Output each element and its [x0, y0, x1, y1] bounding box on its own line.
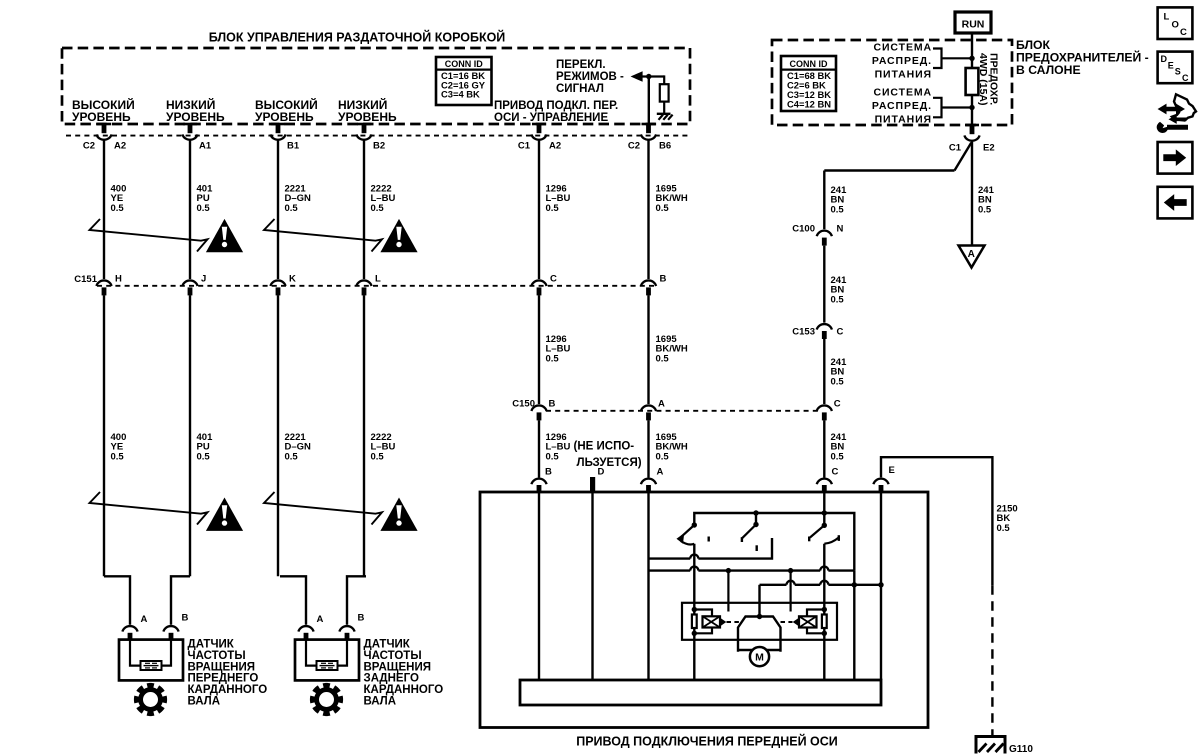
svg-text:C3=4 BK: C3=4 BK [441, 89, 480, 100]
right solenoid bracket [807, 610, 824, 634]
wire column x=364 C151 to sensor jog [363, 295, 365, 576]
sensor element (coil) (front shaft sensor) [141, 661, 162, 670]
bus line (pin A net) [649, 569, 691, 571]
svg-text:B1: B1 [287, 141, 300, 152]
svg-text:УРОВЕНЬ: УРОВЕНЬ [166, 110, 225, 124]
switch 1 pivot [692, 522, 697, 527]
svg-text:C1: C1 [949, 143, 962, 154]
svg-text:E: E [889, 465, 895, 476]
svg-text:УРОВЕНЬ: УРОВЕНЬ [338, 110, 397, 124]
warning triangle (pair 2221/2222 upper) [380, 219, 417, 252]
switch 1 throat contact [681, 541, 695, 545]
inline connector C151 pin H [96, 280, 111, 286]
svg-text:ВРАЩЕНИЯ: ВРАЩЕНИЯ [364, 661, 432, 673]
icon box LOC [1158, 7, 1193, 39]
svg-text:B: B [358, 613, 365, 624]
icon box arrow right [1158, 142, 1193, 174]
wire: motor drop [758, 585, 760, 617]
svg-text:ЗАДНЕГО: ЗАДНЕГО [364, 673, 419, 685]
svg-text:РАСПРЕД.: РАСПРЕД. [872, 100, 932, 112]
node: left solenoid top [692, 607, 697, 612]
sensor element (coil) (rear shaft sensor) [317, 661, 338, 670]
svg-text:CONN ID: CONN ID [790, 59, 829, 69]
svg-text:CONN ID: CONN ID [445, 59, 484, 69]
svg-text:0.5: 0.5 [831, 204, 845, 215]
wire column x=648.5 module to C151 [647, 140, 649, 279]
CONN ID table (fuse block) [781, 56, 836, 111]
svg-text:ЛЬЗУЕТСЯ): ЛЬЗУЕТСЯ) [577, 457, 642, 469]
inline connector C151 pin B [641, 280, 656, 286]
twisted-pair symbol (wires 2221/2222 upper) [264, 219, 382, 252]
svg-text:ПИТАНИЯ: ПИТАНИЯ [875, 114, 932, 126]
wire jog left ЗАДНЕГО (rear shaft sensor) [280, 576, 306, 625]
node: junction dot on B6 wire [646, 74, 651, 79]
inline connector C100 pin N [817, 231, 832, 237]
bracket (lower feed) [933, 98, 942, 118]
wire 241 BN: C100 to C153 [823, 246, 825, 323]
svg-text:0.5: 0.5 [197, 451, 211, 462]
svg-text:K: K [289, 274, 296, 285]
right solenoid valve (X-box) [799, 616, 817, 627]
wire: pin B to ground bar [538, 492, 540, 680]
svg-text:L: L [1164, 12, 1170, 23]
node: right solenoid top [822, 607, 827, 612]
ground bar (actuator base) [520, 680, 881, 705]
fuse block box (dashed) [772, 40, 1012, 125]
wire: through right solenoid [823, 610, 825, 634]
svg-text:L: L [375, 274, 381, 285]
motor supply line (horizontal) [760, 584, 787, 586]
svg-text:0.5: 0.5 [546, 203, 560, 214]
svg-text:0.5: 0.5 [111, 203, 125, 214]
switch rail (top) [694, 513, 854, 571]
right solenoid bar [822, 615, 827, 629]
node: motor line - frame right [852, 582, 857, 587]
wire 241 BN to A-triangle [971, 142, 973, 246]
switch 1 alt contact tick [708, 537, 710, 542]
svg-text:N: N [837, 224, 844, 235]
svg-text:G110: G110 [1009, 744, 1033, 755]
svg-text:0.5: 0.5 [285, 451, 299, 462]
switch 1 blade [682, 525, 695, 537]
svg-text:ДАТЧИК: ДАТЧИК [364, 639, 411, 651]
solenoid block box [682, 603, 837, 640]
node: bus-limit switch left [726, 568, 731, 573]
wire 2150 BK: up from pin E and across [881, 457, 992, 585]
sensor pin A connector (rear shaft sensor) [298, 626, 313, 632]
svg-text:A: A [968, 249, 975, 260]
svg-text:C100: C100 [792, 224, 815, 235]
svg-text:A2: A2 [549, 141, 561, 152]
wire column x=190 module to C151 [189, 140, 191, 279]
twisted-pair symbol (wires 400/401 upper) [90, 219, 208, 252]
svg-text:0.5: 0.5 [656, 353, 670, 364]
wire jog right ПЕРЕДНЕГО (front shaft sensor) [171, 576, 190, 625]
node: right solenoid bottom [822, 631, 827, 636]
sensor pin A connector (front shaft sensor) [122, 626, 137, 632]
wire: right solenoid to ground bar [823, 633, 825, 680]
wire: resistor to ground [663, 102, 665, 114]
svg-text:ПРИВОД ПОДКЛЮЧЕНИЯ ПЕРЕДНЕЙ ОС: ПРИВОД ПОДКЛЮЧЕНИЯ ПЕРЕДНЕЙ ОСИ [576, 734, 838, 749]
svg-text:СИСТЕМА: СИСТЕМА [874, 87, 933, 99]
gear (reluctor wheel) (rear shaft sensor) [310, 683, 343, 716]
warning triangle (pair 400/401 lower) [206, 498, 243, 531]
svg-text:ПЕРЕДНЕГО: ПЕРЕДНЕГО [188, 673, 259, 685]
resistor R (mode signal pull-up) [660, 84, 669, 101]
twisted-pair symbol (wires 400/401 lower) [90, 492, 208, 525]
node: feed junction lower [969, 105, 974, 110]
svg-text:ВАЛА: ВАЛА [364, 696, 397, 708]
wire column x=278 C151 to sensor jog [277, 295, 279, 576]
wire: left solenoid to ground bar [693, 633, 695, 680]
svg-text:ВРАЩЕНИЯ: ВРАЩЕНИЯ [188, 661, 256, 673]
svg-text:СИГНАЛ: СИГНАЛ [556, 83, 604, 95]
C151 connector dashed line [97, 285, 656, 287]
svg-text:A2: A2 [114, 141, 126, 152]
svg-text:В САЛОНЕ: В САЛОНЕ [1016, 63, 1081, 77]
wire column x=104 C151 to sensor jog [103, 295, 105, 576]
svg-text:C: C [1182, 73, 1189, 83]
wire: through left solenoid [693, 610, 695, 634]
svg-text:0.5: 0.5 [978, 204, 992, 215]
svg-text:ДАТЧИК: ДАТЧИК [188, 639, 235, 651]
dashed link right [781, 621, 793, 623]
sensor body box (front shaft sensor) [119, 640, 183, 681]
sensor body box (rear shaft sensor) [295, 640, 359, 681]
wire: frame right to ground bar [853, 571, 855, 680]
node: motor housing top [757, 614, 762, 619]
svg-text:УРОВЕНЬ: УРОВЕНЬ [72, 110, 131, 124]
svg-text:M: M [755, 651, 764, 663]
wire: switch3 contact down [823, 544, 825, 610]
wire 241 BN: to C100 [823, 171, 825, 230]
wire 2150 BK dashed segment [991, 585, 993, 736]
svg-text:C: C [550, 274, 557, 285]
svg-text:0.5: 0.5 [197, 203, 211, 214]
module connector dashed line [66, 135, 688, 137]
switch 2 contact tick [756, 545, 758, 551]
node: rail-pin C [822, 510, 827, 515]
svg-text:ЧАСТОТЫ: ЧАСТОТЫ [364, 650, 422, 662]
wire: fuse to pin E2 [971, 95, 973, 125]
ground G110 [975, 735, 1007, 738]
wire: pin A to ground bar [647, 492, 649, 680]
wire column x=364 module to C151 [363, 140, 365, 279]
wire: horizontal to 241 BN branch [824, 169, 954, 171]
svg-text:C: C [834, 399, 841, 410]
svg-text:A: A [141, 614, 148, 625]
svg-text:E: E [1168, 60, 1174, 70]
wire 241 BN: C150 to actuator box [823, 420, 825, 477]
wire column x=539 C151 to C150 [538, 295, 540, 404]
svg-text:0.5: 0.5 [371, 203, 385, 214]
svg-text:J: J [201, 274, 206, 285]
svg-text:ПРИВОД ПОДКЛ. ПЕР.: ПРИВОД ПОДКЛ. ПЕР. [494, 100, 618, 112]
switch 2 pivot [753, 522, 758, 527]
svg-text:C2: C2 [628, 141, 640, 152]
inline connector C151 pin K [270, 280, 285, 286]
switch 3 pivot [822, 523, 827, 528]
wire: pin D to ground bar [591, 492, 593, 680]
connector pin E at actuator [873, 479, 888, 485]
warning triangle (pair 400/401 upper) [206, 219, 243, 252]
switch 2 blade [742, 525, 756, 539]
svg-text:C153: C153 [792, 327, 815, 338]
svg-text:(НЕ ИСПО-: (НЕ ИСПО- [574, 441, 635, 453]
dashed link left [727, 621, 740, 623]
svg-text:ЧАСТОТЫ: ЧАСТОТЫ [188, 650, 246, 662]
wire column x=278 module to C151 [277, 140, 279, 279]
wire jog right ЗАДНЕГО (rear shaft sensor) [347, 576, 366, 625]
wire: pin C into switch [823, 492, 825, 525]
wire column x=539 C150 to actuator box [538, 420, 540, 477]
limit switch contact left [727, 571, 729, 612]
svg-text:B6: B6 [659, 141, 671, 152]
warning triangle (pair 2221/2222 lower) [380, 498, 417, 531]
module box: transfer case control unit (dashed) [62, 48, 690, 124]
svg-text:D: D [1161, 54, 1168, 64]
connector pin C2:A2 at module [97, 123, 111, 126]
svg-text:ВАЛА: ВАЛА [188, 696, 221, 708]
connector pin C2:B1 at module [271, 123, 285, 126]
inline connector C151 pin J [182, 280, 197, 286]
motor M [750, 647, 769, 666]
svg-text:0.5: 0.5 [111, 451, 125, 462]
node: motor line - pin E wire [878, 582, 883, 587]
svg-text:B: B [545, 467, 552, 478]
svg-text:0.5: 0.5 [997, 523, 1011, 534]
connector pin C1:E2 at fuse block [965, 124, 979, 127]
sensor internal wiring (front shaft sensor) [130, 640, 141, 666]
inline connector C150 pin C [817, 405, 832, 411]
connector pin C1:A2 at module [532, 123, 546, 126]
switch 3 blade [810, 525, 824, 537]
svg-text:РЕЖИМОВ -: РЕЖИМОВ - [556, 71, 624, 83]
svg-text:A: A [317, 614, 324, 625]
icon box DESC [1158, 52, 1193, 84]
wire: B6 pin lead inside module [648, 77, 650, 125]
svg-text:КАРДАННОГО: КАРДАННОГО [364, 684, 444, 696]
svg-text:ПИТАНИЯ: ПИТАНИЯ [875, 69, 932, 81]
connector pin C2:B2 at module [357, 123, 371, 126]
svg-text:4WD (15А): 4WD (15А) [977, 53, 989, 106]
twisted-pair symbol (wires 2221/2222 lower) [264, 492, 382, 525]
actuator box (front axle engage actuator) [480, 492, 928, 728]
svg-text:0.5: 0.5 [831, 376, 845, 387]
sensor pin B connector (rear shaft sensor) [339, 626, 354, 632]
bracket (upper feed) [933, 49, 942, 69]
svg-text:A1: A1 [199, 141, 212, 152]
wire: pin E inside actuator [880, 492, 882, 680]
svg-text:C4=12 BN: C4=12 BN [787, 98, 831, 109]
svg-text:0.5: 0.5 [285, 203, 299, 214]
wire column x=539 module to C151 [538, 140, 540, 279]
svg-text:C2: C2 [83, 141, 95, 152]
left solenoid bar [692, 615, 697, 629]
connector pin B at actuator [531, 479, 546, 485]
wire column x=648.5 C150 to actuator box [647, 420, 649, 477]
connector pin A at actuator [641, 479, 656, 485]
svg-text:B2: B2 [373, 141, 385, 152]
wire: RUN to fuse [971, 33, 973, 68]
node: rail-middle switch [753, 510, 758, 515]
inline connector C150 pin B [531, 405, 546, 411]
left solenoid bracket [694, 610, 712, 634]
svg-text:O: O [1172, 19, 1179, 30]
wire 241 BN: C153 to C150 [823, 339, 825, 404]
motor housing [738, 617, 781, 652]
svg-text:A: A [658, 399, 665, 410]
gear (reluctor wheel) (front shaft sensor) [134, 683, 167, 716]
svg-text:C: C [837, 327, 844, 338]
svg-text:0.5: 0.5 [831, 294, 845, 305]
wire column x=104 module to C151 [103, 140, 105, 279]
connector pin C at actuator [817, 479, 832, 485]
svg-text:ПЕРЕКЛ.: ПЕРЕКЛ. [556, 59, 606, 71]
svg-text:B: B [182, 613, 189, 624]
svg-text:B: B [660, 274, 667, 285]
wire column x=190 C151 to sensor jog [189, 295, 191, 576]
wire column x=648.5 C151 to C150 [647, 295, 649, 404]
switch 3 throat contact [824, 538, 838, 544]
svg-text:0.5: 0.5 [831, 451, 845, 462]
svg-text:РАСПРЕД.: РАСПРЕД. [872, 55, 932, 67]
connector pin C2:B6 at module [642, 123, 656, 126]
wire: E2 split diagonal [955, 143, 972, 171]
A-triangle (circuit continuation) [959, 246, 985, 268]
node: bus-limit switch right [788, 568, 793, 573]
pin stub D (not used) [590, 477, 595, 492]
fuse PREDOHR 4WD 15A [966, 68, 979, 95]
svg-text:0.5: 0.5 [546, 353, 560, 364]
ground (module internal) [657, 113, 671, 115]
svg-text:RUN: RUN [962, 18, 985, 30]
svg-text:УРОВЕНЬ: УРОВЕНЬ [255, 110, 314, 124]
RUN box [955, 12, 991, 33]
sensor pin B connector (front shaft sensor) [163, 626, 178, 632]
switch 2 L-contact [698, 538, 772, 559]
wire: switch1 contact down [693, 544, 695, 610]
svg-text:C151: C151 [74, 274, 97, 285]
signal arrow (points left) [632, 72, 642, 81]
wire jog left ПЕРЕДНЕГО (front shaft sensor) [104, 576, 130, 625]
svg-text:B: B [549, 399, 556, 410]
connector pin C2:A1 at module [183, 123, 197, 126]
svg-text:E2: E2 [983, 143, 995, 154]
CONN ID table (module) [436, 57, 492, 105]
svg-text:C: C [832, 467, 839, 478]
svg-text:СИСТЕМА: СИСТЕМА [874, 42, 933, 54]
inline connector C150 pin A [641, 405, 656, 411]
sensor internal wiring (rear shaft sensor) [306, 640, 317, 666]
svg-text:H: H [115, 274, 122, 285]
svg-text:0.5: 0.5 [656, 203, 670, 214]
svg-text:D: D [598, 467, 605, 478]
svg-text:C: C [1180, 27, 1187, 38]
node: feed junction upper [969, 56, 974, 61]
node: left solenoid bottom [692, 631, 697, 636]
C150 connector dashed line [546, 410, 818, 412]
svg-text:A: A [657, 467, 664, 478]
inline connector C153 pin C [817, 324, 832, 330]
svg-text:0.5: 0.5 [546, 451, 560, 462]
svg-text:S: S [1175, 67, 1181, 77]
svg-text:0.5: 0.5 [656, 451, 670, 462]
left solenoid valve (X-box) [703, 616, 721, 627]
icon: diagnostic wrench [1159, 105, 1185, 114]
icon box arrow left [1158, 187, 1193, 219]
inline connector C151 pin L [356, 280, 371, 286]
svg-text:ОСИ - УПРАВЛЕНИЕ: ОСИ - УПРАВЛЕНИЕ [494, 112, 608, 124]
middle switch stub [755, 513, 757, 525]
svg-text:КАРДАННОГО: КАРДАННОГО [188, 684, 268, 696]
svg-text:0.5: 0.5 [371, 451, 385, 462]
limit switch contact right [789, 571, 791, 612]
svg-text:C1: C1 [518, 141, 531, 152]
inline connector C151 pin C [531, 280, 546, 286]
svg-text:БЛОК УПРАВЛЕНИЯ РАЗДАТОЧНОЙ КО: БЛОК УПРАВЛЕНИЯ РАЗДАТОЧНОЙ КОРОБКОЙ [209, 30, 506, 45]
wire: drop to resistor R [663, 75, 665, 84]
